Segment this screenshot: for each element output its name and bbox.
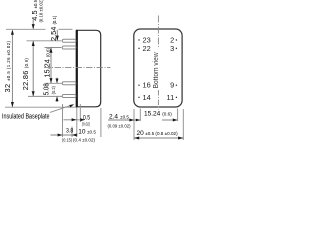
pin 3: [170, 44, 177, 53]
extension line, bottom view right pin column: [177, 109, 179, 122]
pin 14: [138, 93, 150, 102]
extension line, pin row 4: [28, 95, 62, 97]
svg-text:9: 9: [170, 81, 174, 90]
svg-text:(0.4 ±0.02): (0.4 ±0.02): [73, 137, 96, 142]
extension line below, case right edge: [100, 108, 102, 137]
svg-text:20±0.5 (0.8 ±0.02): 20±0.5 (0.8 ±0.02): [137, 130, 179, 137]
label Bottom view (rotated): [153, 52, 160, 88]
svg-text:(0.15): (0.15): [62, 137, 73, 142]
dimension 32 ±0.5 (1.26 ±0.02) overall length: [3, 30, 14, 108]
extension line below, baseplate inner face: [79, 104, 81, 122]
svg-text:(0.02): (0.02): [82, 121, 90, 126]
svg-text:Bottom view: Bottom view: [153, 52, 160, 88]
extension line, bottom view left edge: [133, 109, 135, 140]
dimension 0.5 (0.02) baseplate thickness: [64, 115, 91, 127]
pin 23: [138, 35, 150, 44]
dimension 22.86 (0.9) pin row 1 to pin row 4: [21, 41, 35, 97]
extension line, pin row 2: [45, 47, 62, 49]
insulated baseplate (thick left edge of side view): [76, 30, 78, 107]
dimension 5.08 (0.2) pin row 3 to pin row 4: [42, 78, 59, 102]
extension line below, pin tips: [62, 104, 64, 137]
pin 9: [170, 81, 177, 90]
dimension 4.5 ±0.5 (0.18 ±0.02) case top to pin row 1: [30, 0, 43, 29]
extension line, pin row 1: [27, 40, 62, 42]
extension line below, 3.8 right extent: [71, 127, 73, 138]
dimension 15.24 (0.6) pin row 2 to pin row 3: [42, 48, 52, 84]
dimension 10 ±0.5 (0.4 ±0.02) case thickness: [73, 128, 96, 142]
dimension 3.8 (0.15) pin protrusion: [51, 128, 78, 143]
pin 16: [138, 81, 150, 90]
svg-text:22: 22: [143, 44, 151, 53]
svg-text:3.8: 3.8: [66, 128, 73, 135]
extension line, bottom view right edge: [182, 109, 184, 140]
pin 11: [167, 93, 178, 102]
svg-text:(0.2): (0.2): [51, 85, 56, 94]
dimension 20 ±0.5 (0.8 ±0.02) overall width: [134, 130, 183, 140]
svg-text:(0.18 ±0.02): (0.18 ±0.02): [38, 0, 43, 23]
dimension 2.54 (0.1) pin row 1 to pin row 2: [49, 15, 59, 41]
vertical centerline of bottom view (upper segment): [157, 16, 159, 49]
pin row 1 (side view): [62, 39, 76, 42]
svg-text:15.24(0.6): 15.24(0.6): [144, 111, 172, 118]
svg-text:10±0.5: 10±0.5: [78, 128, 96, 135]
svg-text:3: 3: [170, 44, 174, 53]
extension line, bottom view left pin column: [139, 109, 141, 122]
extension line, pin row 3: [45, 82, 62, 84]
pin 2: [170, 35, 177, 44]
svg-text:2.4±0.5: 2.4±0.5: [109, 113, 129, 120]
extension line below, baseplate face: [76, 108, 78, 138]
leader + label: Insulated Baseplate: [2, 104, 74, 120]
svg-text:11: 11: [167, 93, 175, 102]
svg-text:Insulated Baseplate: Insulated Baseplate: [2, 112, 50, 121]
pin row 4 (side view): [62, 95, 76, 98]
pin row 2 (side view): [62, 46, 76, 49]
extension line, case bottom edge: [5, 106, 76, 108]
bottom view outline: [134, 29, 182, 107]
pin 22: [138, 44, 150, 53]
horizontal centerline of side view: [44, 67, 111, 69]
pin row 3 (side view): [62, 82, 76, 85]
vertical centerline of bottom view (lower segment): [157, 90, 159, 110]
svg-text:(0.09 ±0.02): (0.09 ±0.02): [108, 123, 132, 128]
svg-text:5.08: 5.08: [42, 83, 51, 95]
svg-text:14: 14: [143, 93, 151, 102]
dimension 2.4 ±0.5 (0.09 ±0.02) edge to pin column: [108, 113, 141, 128]
side view case outline: [77, 30, 101, 107]
dimension 15.24 (0.6) between pin columns: [144, 111, 178, 122]
extension line, case top edge: [6, 28, 73, 30]
svg-text:16: 16: [143, 81, 151, 90]
